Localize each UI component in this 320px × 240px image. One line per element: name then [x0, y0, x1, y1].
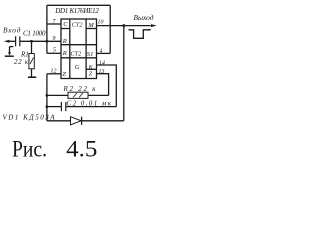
wire diode VD1 line	[47, 120, 124, 122]
capacitor C1	[16, 36, 20, 46]
wire C2 left lead	[47, 106, 61, 108]
wire input terminal to C1	[9, 40, 16, 42]
junction output node	[122, 24, 125, 27]
diode VD1	[71, 117, 82, 125]
wire pin 14 rail	[97, 65, 117, 107]
svg-text:M: M	[87, 22, 94, 29]
input arrow	[4, 40, 10, 43]
wire C2 right lead	[66, 106, 117, 108]
svg-text:13: 13	[99, 69, 105, 75]
wire input node from C1 to DD1 pin 9	[20, 40, 61, 42]
capacitor C2	[61, 102, 65, 111]
svg-text:10: 10	[98, 19, 104, 25]
svg-text:4.5: 4.5	[66, 137, 97, 162]
svg-text:С2 0,01 мк: С2 0,01 мк	[67, 100, 112, 108]
resistor R2	[68, 92, 88, 98]
svg-text:VD1 КД503А: VD1 КД503А	[3, 114, 56, 122]
svg-text:C: C	[63, 21, 68, 28]
wire pin 12 stub	[47, 73, 61, 75]
svg-text:4: 4	[100, 49, 103, 55]
svg-text:С1 1000: С1 1000	[23, 29, 46, 37]
wire R2 right lead	[88, 94, 109, 96]
svg-text:Выход: Выход	[134, 13, 154, 22]
wire pin 13 rail	[97, 74, 109, 96]
svg-text:R: R	[62, 38, 67, 45]
svg-text:12: 12	[51, 68, 57, 74]
wire output rail down to diode	[123, 26, 125, 121]
IC DD1 K176IE12 box	[61, 19, 97, 79]
svg-text:R: R	[62, 50, 67, 57]
wire pin 4 stub	[97, 52, 111, 54]
wire feedback vertical at input node	[46, 5, 48, 53]
svg-text:G: G	[75, 64, 80, 71]
junction left rail at C2	[46, 105, 49, 108]
svg-text:22 к: 22 к	[14, 58, 29, 66]
wire R1 bottom to ground	[31, 69, 33, 77]
svg-text:R2 22 к: R2 22 к	[63, 85, 97, 93]
svg-text:14: 14	[99, 60, 105, 66]
wire feedback top run	[47, 4, 110, 6]
svg-text:Вход: Вход	[3, 26, 21, 35]
output pulse waveform symbol	[129, 29, 152, 39]
svg-text:Рис.: Рис.	[12, 137, 47, 162]
junction input node at feedback vertical	[46, 40, 49, 43]
svg-text:5: 5	[53, 48, 56, 54]
ground	[28, 76, 36, 78]
junction left rail at R2	[46, 94, 49, 97]
svg-text:Z: Z	[62, 71, 66, 78]
svg-text:CT2: CT2	[71, 50, 82, 57]
wire R2 left lead	[47, 94, 68, 96]
wire feedback vertical down to pin 4	[109, 5, 111, 53]
input common terminal arrowhead	[8, 52, 11, 56]
output arrow	[151, 24, 157, 27]
svg-text:Z: Z	[89, 71, 93, 78]
junction input node at R1	[30, 40, 33, 43]
wire pin 7 stub	[47, 23, 61, 25]
resistor R1	[29, 54, 34, 69]
wire R1 top branch	[31, 41, 33, 53]
wire left oscillator rail	[46, 74, 48, 121]
svg-text:CT2: CT2	[72, 21, 83, 28]
svg-text:DD1 К176ИЕ12: DD1 К176ИЕ12	[54, 7, 99, 15]
svg-text:S1: S1	[87, 51, 94, 58]
wire output from pin 10	[97, 25, 151, 27]
svg-text:9: 9	[53, 36, 56, 42]
wire pin 5 stub	[47, 52, 61, 54]
input common terminal	[5, 47, 14, 57]
